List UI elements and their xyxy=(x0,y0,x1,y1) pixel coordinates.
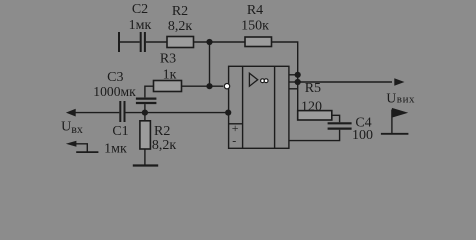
input arrow xyxy=(66,109,76,117)
wire pin 2 xyxy=(289,81,298,83)
wire xyxy=(119,41,140,43)
svg-text:1мк: 1мк xyxy=(129,18,152,33)
svg-text:8,2к: 8,2к xyxy=(168,19,193,34)
capacitor C3 xyxy=(136,97,157,99)
wire xyxy=(144,104,146,113)
svg-text:C3: C3 xyxy=(107,70,123,85)
output flag arrow xyxy=(392,108,408,118)
node D (junction dot) xyxy=(225,110,231,116)
wire xyxy=(145,86,154,97)
node E (junction dot) xyxy=(295,72,301,78)
svg-text:Uвх: Uвх xyxy=(61,120,83,136)
wire xyxy=(209,42,211,86)
svg-text:R2: R2 xyxy=(172,4,188,19)
resistor R4 xyxy=(245,37,272,47)
ground xyxy=(133,164,158,166)
svg-text:Uвих: Uвих xyxy=(386,90,415,105)
resistor R2 (top) xyxy=(167,37,194,48)
op-amp U1 xyxy=(229,66,289,148)
output terminal flag xyxy=(381,133,409,135)
svg-text:8,2к: 8,2к xyxy=(152,138,177,153)
output arrow xyxy=(394,78,404,86)
wire xyxy=(75,112,119,114)
wire pin 1 xyxy=(289,74,298,76)
resistor R2 (bottom) xyxy=(140,121,151,149)
node F (junction dot) xyxy=(295,79,301,85)
node A (junction dot) xyxy=(206,39,212,45)
capacitor C4 xyxy=(328,122,352,124)
node circle (open, op-amp inverting input) xyxy=(224,84,229,89)
wire xyxy=(182,85,224,87)
input terminal flag xyxy=(76,144,87,152)
op-amp infinity symbol xyxy=(261,79,265,83)
svg-text:R2: R2 xyxy=(154,124,170,139)
op-amp triangle symbol xyxy=(249,73,257,86)
wire xyxy=(272,42,298,115)
svg-text:1мк: 1мк xyxy=(104,141,127,156)
wire pin 3 xyxy=(289,88,298,90)
svg-text:R4: R4 xyxy=(247,3,263,18)
svg-text:C1: C1 xyxy=(112,124,128,139)
svg-text:R3: R3 xyxy=(160,52,176,67)
capacitor C1 xyxy=(119,101,121,122)
capacitor C2 xyxy=(140,32,142,52)
node C (junction dot) xyxy=(142,110,148,116)
wire xyxy=(332,115,340,122)
svg-text:150к: 150к xyxy=(241,19,269,34)
svg-text:1к: 1к xyxy=(163,68,177,83)
wire xyxy=(194,41,246,43)
svg-text:1000мк: 1000мк xyxy=(93,84,136,99)
wire xyxy=(289,130,340,141)
svg-text:-: - xyxy=(232,133,236,147)
input terminal tick xyxy=(118,32,120,52)
resistor R5 xyxy=(298,111,332,120)
wire output xyxy=(298,81,392,83)
wire xyxy=(144,149,146,165)
wire xyxy=(126,112,229,114)
resistor R3 xyxy=(154,81,182,92)
svg-text:120: 120 xyxy=(301,99,322,114)
svg-text:C2: C2 xyxy=(132,2,148,17)
input flag arrow xyxy=(66,141,77,147)
svg-text:R5: R5 xyxy=(305,81,321,96)
svg-text:100: 100 xyxy=(352,128,373,143)
wire xyxy=(146,41,167,43)
wire xyxy=(144,113,146,121)
node B (junction dot) xyxy=(206,83,212,89)
